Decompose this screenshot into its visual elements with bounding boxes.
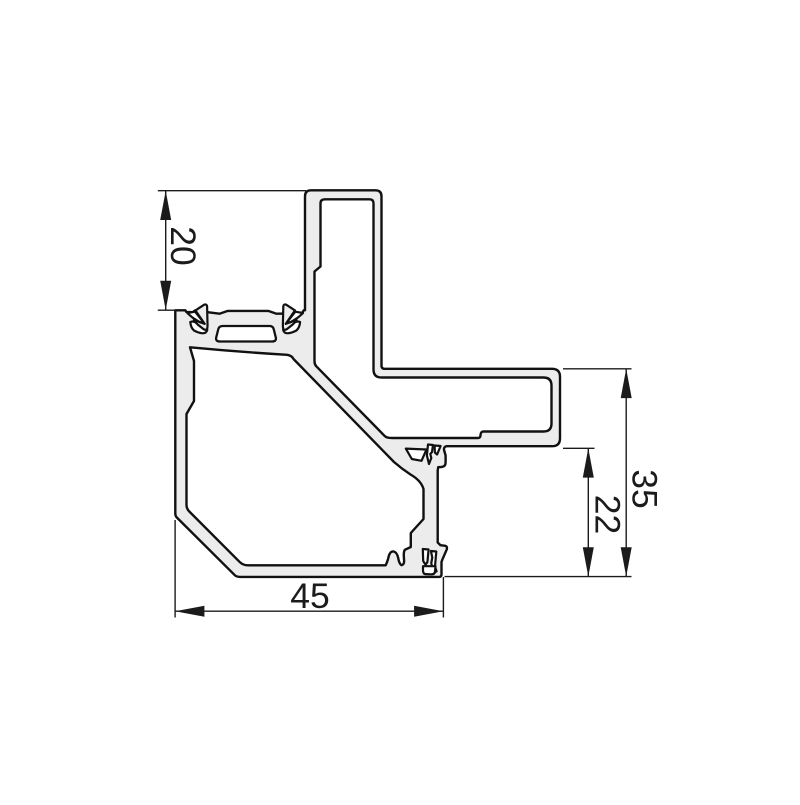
dimension 20: arrow up xyxy=(160,191,171,220)
clip channel chamber (white dovetail) xyxy=(216,326,276,342)
shared bottom extension line xyxy=(445,576,632,578)
dimension 22: dim line xyxy=(587,448,589,576)
svg-text:35: 35 xyxy=(624,469,664,509)
dimension 20: extension line top xyxy=(158,190,306,192)
bottom screw pocket (white) xyxy=(423,566,436,574)
L-channel inner chamber (white) xyxy=(315,199,552,438)
dimension 35: extension line top xyxy=(563,368,632,370)
dimension 45: right extension line xyxy=(442,577,444,618)
svg-text:45: 45 xyxy=(290,576,330,616)
body big chamber (white) xyxy=(187,347,424,565)
right seal cup (white, mirrored) xyxy=(283,322,300,334)
bottom cluster notch B2 (white) xyxy=(431,551,437,572)
left seal slot (white) xyxy=(187,312,204,324)
dimension 45: left extension line xyxy=(174,520,176,618)
dimension 35: arrow up xyxy=(621,369,632,398)
left hook pennant with barb (gray) xyxy=(194,304,208,329)
dimension 45: arrow right xyxy=(414,606,443,617)
dimension 22: arrow down xyxy=(583,547,594,576)
top cluster slot 2 (white) xyxy=(427,445,433,465)
dimension 45: dim line xyxy=(175,610,443,612)
bottom cluster notch B1 (white V) xyxy=(423,549,429,565)
right hook pennant with barb (gray, mirrored) xyxy=(283,304,297,329)
profile outer silhouette xyxy=(175,190,560,577)
top cluster notch 3 (white) xyxy=(435,446,441,455)
top cluster notch 1 (white V) xyxy=(406,449,427,461)
dimension 35: arrow down xyxy=(621,547,632,576)
svg-text:22: 22 xyxy=(588,495,628,535)
dimension 20: arrow down xyxy=(160,281,171,310)
left seal cup (white) xyxy=(190,322,207,334)
dimension 22: extension line top xyxy=(563,447,595,449)
dimension 20: extension line bottom xyxy=(158,309,176,311)
dimension 22: arrow up xyxy=(583,448,594,477)
dimension 35: dim line xyxy=(625,369,627,577)
dimension 45: arrow left xyxy=(175,606,204,617)
svg-text:20: 20 xyxy=(163,226,203,266)
dimension 20: dim line xyxy=(165,191,167,310)
right seal slot (white, mirrored) xyxy=(286,312,303,324)
